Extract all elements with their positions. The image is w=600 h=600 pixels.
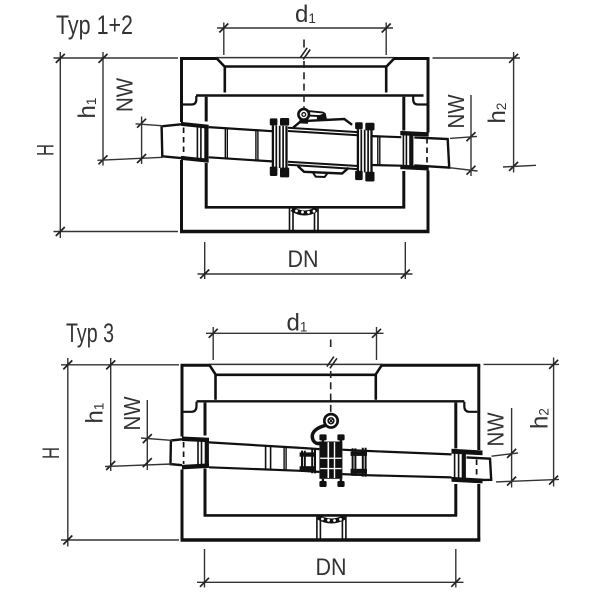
tick d1 right — [382, 24, 391, 33]
NW top extension — [136, 124, 164, 126]
chamber top edge thick right — [382, 364, 481, 367]
valve flange plates left — [302, 449, 315, 473]
socket rings left — [197, 126, 201, 161]
chamber outer wall left — [180, 59, 183, 232]
stem dashes — [330, 371, 332, 415]
flange bolt bars left — [300, 452, 316, 456]
label NW right — [483, 412, 509, 446]
tick d1 right — [372, 329, 381, 338]
valve body top band — [288, 128, 358, 136]
gear base — [299, 119, 308, 124]
tick H top — [63, 360, 72, 369]
tick DN right — [451, 578, 460, 587]
stud bolts bottom — [323, 479, 341, 484]
stud bolts top — [323, 437, 341, 442]
tick NW top — [137, 119, 146, 128]
wall sleeve top band left — [181, 122, 209, 129]
svg-text:DN: DN — [288, 246, 319, 273]
DN extension left — [204, 549, 206, 588]
pipe between body and flange right — [342, 450, 366, 476]
h2 bottom extension — [503, 165, 536, 167]
pipe break dashed left — [183, 128, 185, 158]
label h1 — [74, 98, 101, 119]
tick NW right top — [507, 449, 516, 458]
inner wall right — [402, 97, 405, 207]
label h2 — [484, 103, 511, 124]
svg-text:Typ 1+2: Typ 1+2 — [56, 10, 133, 40]
tick h1 bottom — [99, 155, 108, 164]
sump sieve — [292, 209, 317, 213]
neck chamfer right — [386, 58, 395, 67]
pipe joint ring — [266, 446, 271, 470]
pipe joint ring — [378, 136, 380, 165]
sump drain walls — [317, 517, 346, 539]
dimension NW left line — [141, 117, 143, 165]
h1 bottom extension — [98, 157, 164, 160]
chamber top surface thin line across opening — [216, 57, 394, 59]
NW right bottom extension — [451, 168, 478, 171]
left extension top — [61, 364, 179, 366]
tick h2 bottom — [509, 162, 518, 171]
tick H top — [56, 54, 65, 63]
chamber outer wall right — [427, 59, 430, 232]
pipe stub right — [467, 457, 492, 480]
tick h2 bottom — [549, 476, 558, 485]
dimension h2 line — [553, 358, 555, 487]
pipe joint ring — [284, 447, 286, 470]
tick DN left — [200, 578, 209, 587]
opening vertical right — [374, 375, 377, 400]
dimension NW right line — [470, 95, 472, 176]
stem break mark — [300, 48, 310, 60]
label NW left — [112, 78, 138, 112]
wall sleeve top band right — [452, 449, 483, 456]
inner wall right — [454, 403, 457, 515]
operating cap — [324, 414, 337, 427]
stem break mark — [327, 357, 337, 369]
tick h2 top — [549, 360, 558, 369]
valve stem dashed axis — [330, 340, 332, 348]
tick H bottom — [63, 536, 72, 545]
support ledge left — [183, 96, 196, 105]
dimension d1 extension left — [212, 327, 214, 360]
tick NW right bottom — [507, 477, 516, 486]
svg-text:Typ 3: Typ 3 — [66, 318, 114, 348]
socket rings right — [403, 132, 406, 167]
pipe break dashed right — [476, 460, 478, 479]
pipe joint ring — [256, 130, 258, 160]
neck inner surface — [216, 373, 377, 376]
dimension d1 extension right — [376, 327, 378, 360]
right extension top — [433, 57, 521, 59]
dimension DN line — [197, 581, 464, 583]
dimension h1 line — [110, 358, 112, 471]
socket rings left — [198, 439, 202, 469]
pipe joint ring — [225, 128, 227, 158]
dimension d1 extension right — [385, 23, 387, 56]
chamber bottom edge — [180, 230, 430, 233]
right extension top — [484, 363, 560, 365]
pipe inside right segment — [366, 451, 452, 478]
inner wall left — [205, 97, 208, 207]
tick DN left — [200, 270, 209, 279]
wall sleeve bottom band right — [400, 165, 428, 171]
svg-text:NW: NW — [483, 412, 509, 446]
tick h1 bottom — [106, 461, 115, 470]
valve body block — [319, 442, 342, 479]
chamber bottom edge — [181, 538, 481, 541]
chamber top surface thin line across opening — [209, 363, 383, 365]
socket rings right — [455, 452, 459, 480]
left extension bottom — [54, 231, 179, 233]
flange bolt bars right — [351, 452, 367, 456]
left extension bottom — [61, 539, 179, 541]
dimension d1 line — [206, 332, 384, 334]
lever wedge — [317, 113, 327, 120]
wall sleeve top band left — [182, 437, 209, 443]
stem dashes — [303, 61, 305, 109]
tick h1 top — [99, 54, 108, 63]
pipe between flange and body left — [301, 448, 320, 472]
tick DN right — [401, 270, 410, 279]
right bottom extension — [496, 479, 559, 482]
label h1 — [82, 403, 109, 424]
tick h2 top — [509, 54, 518, 63]
tick NW top — [143, 434, 152, 443]
h1 bottom extension — [105, 464, 172, 467]
pipe inside right segment — [372, 136, 402, 166]
opening vertical left — [214, 375, 217, 400]
valve drain plug — [313, 173, 327, 177]
label NW right — [443, 94, 469, 128]
valve flange right — [358, 129, 372, 173]
sump sieve — [318, 517, 345, 521]
opening vertical left — [224, 67, 227, 93]
svg-text:NW: NW — [119, 396, 145, 430]
chamber top edge thick left — [180, 57, 217, 60]
tick NW bottom — [137, 154, 146, 163]
label H — [33, 144, 60, 156]
lever arm — [308, 111, 324, 116]
tick d1 left — [209, 329, 218, 338]
tick NW bottom — [143, 458, 152, 467]
dimension DN line — [198, 273, 413, 275]
NW right top extension — [492, 453, 519, 456]
wall sleeve bottom band left — [182, 463, 209, 469]
dimension d1 line — [217, 27, 393, 29]
pipe stub left — [171, 439, 183, 465]
support ledge left — [184, 402, 197, 412]
neck chamfer left — [209, 365, 216, 375]
NW top extension — [141, 438, 173, 440]
support ledge right — [413, 96, 426, 105]
valve bottom skirt — [298, 166, 349, 174]
chamber top edge thick left — [181, 364, 211, 367]
svg-text:DN: DN — [316, 554, 347, 581]
pipe break dashed left — [183, 442, 185, 464]
dimension d1 extension left — [223, 23, 225, 56]
support ledge right — [464, 402, 477, 412]
tick h1 top — [106, 360, 115, 369]
wall sleeve top band right — [400, 131, 428, 137]
tick NW right top — [467, 132, 476, 141]
dimension H line — [67, 358, 69, 547]
left extension top — [54, 57, 179, 59]
pipe stub left — [162, 124, 181, 158]
inner wall left — [204, 403, 207, 515]
dimension NW left line — [146, 400, 148, 470]
valve stem dashed axis — [303, 40, 305, 48]
dimension NW right line — [511, 408, 513, 488]
svg-text:NW: NW — [443, 94, 469, 128]
valve bonnet — [293, 119, 352, 128]
label h2 — [527, 408, 554, 429]
DN extension left — [204, 242, 206, 279]
pipe stub right — [414, 137, 449, 167]
pipe inside left segment — [209, 127, 272, 161]
inner floor — [204, 514, 458, 517]
handwheel — [298, 109, 309, 120]
NW right top extension — [450, 136, 477, 138]
wall sleeve bottom band left — [181, 156, 209, 163]
pipe break dashed right — [426, 138, 428, 167]
body highlight slits — [328, 442, 330, 478]
chamber outer wall left — [181, 365, 184, 540]
neck chamfer right — [376, 365, 383, 375]
valve flange plates right — [353, 448, 366, 477]
valve body bottom band — [288, 162, 358, 169]
DN extension right — [404, 242, 406, 279]
tick NW right bottom — [467, 166, 476, 175]
DN extension right — [455, 549, 457, 588]
label NW left — [119, 396, 145, 430]
opening vertical right — [385, 67, 388, 93]
tick H bottom — [56, 227, 65, 236]
label H — [38, 447, 65, 459]
pipe inside left segment — [209, 442, 301, 470]
wall sleeve bottom band right — [452, 477, 483, 484]
chamber outer wall right — [477, 365, 480, 540]
cover joint line — [196, 94, 424, 96]
svg-text:H: H — [33, 144, 60, 156]
key hook — [312, 426, 325, 444]
svg-text:NW: NW — [112, 78, 138, 112]
neck inner surface — [225, 65, 387, 68]
dimension h1 line — [102, 52, 104, 166]
svg-text:H: H — [38, 447, 65, 459]
dimension H line — [59, 52, 61, 238]
cover joint line — [197, 400, 465, 402]
chamber top edge thick right — [394, 57, 430, 60]
sump drain walls — [290, 209, 319, 231]
neck chamfer left — [216, 58, 225, 67]
inner floor — [205, 206, 406, 209]
tick d1 left — [219, 24, 228, 33]
valve flange left — [273, 125, 287, 168]
dimension h2 line — [513, 52, 515, 173]
